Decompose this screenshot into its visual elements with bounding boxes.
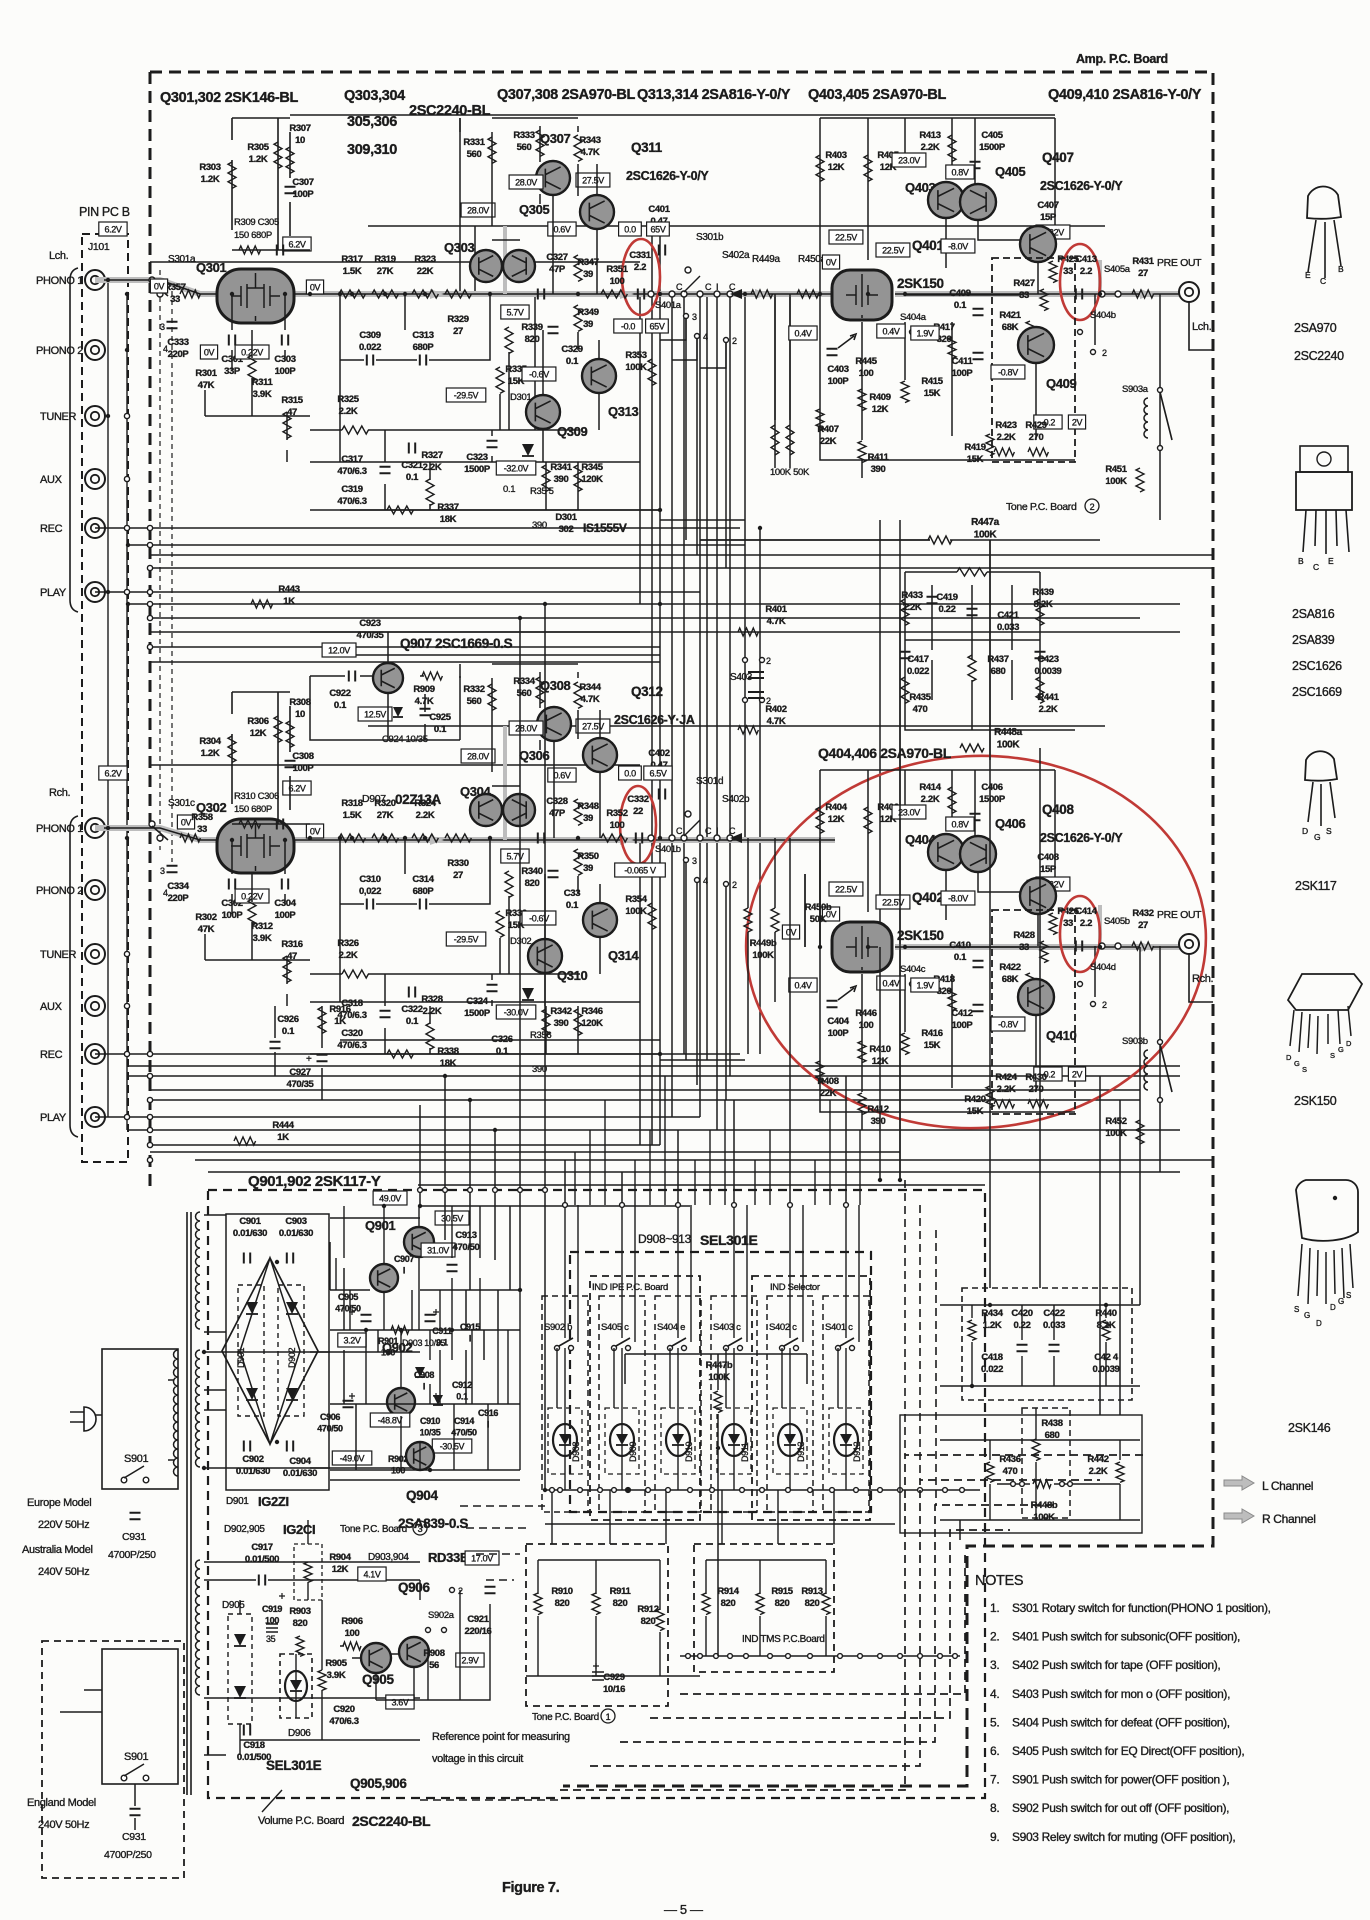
voltage 23.0V [892,805,926,819]
svg-text:R330: R330 [447,858,468,869]
svg-text:R345: R345 [581,462,603,473]
svg-text:1.2K: 1.2K [983,1320,1002,1331]
svg-text:2.2K: 2.2K [997,1084,1016,1095]
black arrow into S402a [730,289,742,299]
svg-text:56: 56 [429,1660,439,1671]
svg-text:S403 Push switch for mon o: S403 Push switch for mon o (OFF position… [1012,1687,1230,1701]
svg-text:R911: R911 [610,1586,632,1597]
svg-text:28.0V: 28.0V [515,178,537,188]
svg-text:Q410: Q410 [1046,1028,1077,1043]
transistor Q310 [528,939,562,973]
jack PHONO 2 rch [85,880,105,900]
svg-text:820: 820 [525,878,540,889]
svg-text:R424: R424 [995,1072,1017,1083]
svg-text:Q405: Q405 [995,164,1026,179]
svg-text:100K: 100K [1105,476,1127,487]
voltage 6.2V rail left Rch [99,766,127,780]
svg-text:2: 2 [732,336,737,346]
svg-text:R910: R910 [551,1586,572,1597]
svg-text:0V: 0V [204,348,215,358]
svg-text:R414: R414 [919,782,941,793]
svg-text:Q403,405 2SA970-BL: Q403,405 2SA970-BL [808,87,946,103]
svg-text:100: 100 [345,1628,360,1639]
svg-text:C307: C307 [292,177,313,188]
svg-text:C309: C309 [359,330,380,341]
transistor Q906 circle [399,1637,429,1667]
voltage 12.0V [322,643,356,657]
svg-text:2.2K: 2.2K [921,142,940,153]
svg-text:0.6V: 0.6V [553,771,570,781]
svg-text:R449b: R449b [750,938,777,949]
svg-text:R332: R332 [463,684,484,695]
svg-text:0.022: 0.022 [359,342,381,353]
svg-text:Q310: Q310 [557,968,588,983]
svg-text:560: 560 [467,696,482,707]
dashed link net upper [905,1180,936,1505]
indicator cell S402 c [767,1296,813,1512]
svg-text:Reference point for measuring: Reference point for measuring [432,1731,570,1743]
svg-text:12K: 12K [332,1564,349,1575]
svg-text:R409: R409 [869,392,890,403]
svg-text:C908: C908 [414,1370,434,1380]
wire R438 [997,1408,1120,1518]
LED D912 dashed box [829,1408,863,1474]
red circle C414 [1060,896,1100,972]
svg-text:680P: 680P [413,886,435,897]
svg-text:0.4V: 0.4V [882,979,899,989]
Europe power switch box [102,1349,178,1489]
svg-text:R434: R434 [981,1308,1003,1319]
svg-text:C322: C322 [401,1004,422,1015]
svg-text:S902a: S902a [428,1610,455,1621]
diode bridge arm 4 [286,1388,298,1400]
svg-text:R306: R306 [247,716,268,727]
svg-text:39: 39 [583,319,593,330]
svg-text:C317: C317 [341,454,362,465]
svg-text:2SC1669: 2SC1669 [1292,685,1342,699]
svg-text:-32.0V: -32.0V [504,464,529,474]
svg-text:3.2V: 3.2V [343,1336,360,1346]
svg-text:S404c: S404c [900,964,926,975]
svg-text:470: 470 [1003,1466,1018,1477]
svg-text:39: 39 [583,269,593,280]
signal path Lch center wire [104,280,1180,294]
svg-text:C314: C314 [412,874,434,885]
svg-text:D903,904: D903,904 [368,1552,409,1563]
pin 2 label Rch [724,882,729,887]
voltage 1.9V [911,326,939,340]
svg-text:28.0V: 28.0V [467,206,489,216]
wire england cap [60,1690,135,1830]
svg-text:12.0V: 12.0V [328,646,350,656]
svg-text:C404: C404 [827,1016,849,1027]
svg-text:2.2K: 2.2K [416,810,435,821]
svg-text:0.1: 0.1 [434,724,447,735]
wire cell S405 c [614,1205,635,1490]
svg-text:2.: 2. [990,1630,999,1644]
svg-text:2SC2240-BL: 2SC2240-BL [352,1813,431,1829]
svg-text:D909: D909 [628,1442,638,1462]
svg-text:-30.0V: -30.0V [504,1008,529,1018]
LED D913 [778,1424,802,1456]
svg-text:C414: C414 [1075,906,1097,917]
svg-text:0.033: 0.033 [997,622,1019,633]
svg-text:C328: C328 [546,796,567,807]
svg-text:22.5V: 22.5V [835,885,857,895]
voltage 1.9V [911,978,939,992]
svg-text:S301d: S301d [696,776,723,787]
wire bottom interconnects [420,540,1140,1540]
svg-text:S402 Push switch for tape: S402 Push switch for tape (OFF position)… [1012,1658,1220,1672]
svg-text:Amp. P.C. Board: Amp. P.C. Board [1076,52,1168,66]
voltage 28.0V a Rch [509,721,543,735]
svg-text:120K: 120K [581,474,603,485]
FET Q901 [370,1264,398,1292]
svg-text:0.8V: 0.8V [951,820,968,830]
wire power reg extra [310,1206,520,1470]
svg-text:R432: R432 [1132,908,1153,919]
bridge rectifier box [226,1214,329,1490]
jack PHONO 1 rch [85,818,105,838]
package SIP 2SK150 [1288,974,1362,1010]
voltage 0.6V [548,222,576,236]
svg-text:470/6.3: 470/6.3 [337,1010,366,1021]
svg-text:4: 4 [703,876,708,886]
svg-text:R419: R419 [964,442,985,453]
svg-text:820: 820 [805,1598,820,1609]
svg-text:S405 c: S405 c [601,1322,629,1333]
svg-text:C914: C914 [454,1416,474,1426]
svg-text:C331: C331 [629,250,651,261]
voltage 0.4V a [789,326,817,340]
svg-text:22.5V: 22.5V [835,233,857,243]
svg-text:100: 100 [610,276,625,287]
voltage 22.5V b [876,243,910,257]
svg-text:220/16: 220/16 [465,1626,492,1637]
svg-text:IND Selector: IND Selector [770,1282,820,1293]
svg-text:560: 560 [517,142,532,153]
svg-text:C: C [1320,276,1326,286]
wire Q309 Q313 block [310,330,660,510]
svg-text:4: 4 [163,888,168,898]
LED D906 [285,1671,307,1701]
svg-text:C421: C421 [997,610,1019,621]
svg-text:England Model: England Model [27,1797,96,1809]
svg-text:27: 27 [453,870,463,881]
svg-text:R909: R909 [413,684,434,695]
polarity plus marks [349,1309,355,1315]
dashed box Q410 [992,910,1075,1114]
svg-text:3.: 3. [990,1658,999,1672]
svg-text:C931: C931 [122,1531,146,1543]
svg-text:2SK150: 2SK150 [1294,1094,1337,1108]
svg-text:D908~913: D908~913 [638,1232,692,1246]
voltage 0.22V Rch [235,889,269,903]
svg-text:12K: 12K [828,162,845,173]
svg-text:G: G [1314,832,1320,842]
Amp P.C. Board left dashed border [149,72,152,1188]
black arrow into S402b [730,833,742,843]
svg-text:-48.8V: -48.8V [378,1416,403,1426]
R434 network dashed box [962,1288,1132,1400]
tone network top resistor [957,568,987,576]
svg-text:R905: R905 [325,1658,347,1669]
svg-text:C332: C332 [627,794,648,805]
svg-text:S404d: S404d [1090,962,1116,973]
svg-text:22.5V: 22.5V [882,246,904,256]
red circle C332 [620,786,656,864]
signal arrow [225,835,239,845]
svg-text:10/16: 10/16 [603,1684,625,1695]
svg-text:2SA970: 2SA970 [1294,321,1337,335]
volume board dashed outline [208,1190,985,1798]
svg-text:390: 390 [871,464,886,475]
svg-text:R340: R340 [521,866,542,877]
svg-text:R341: R341 [550,462,572,473]
svg-text:470/50: 470/50 [335,1304,361,1314]
diode D301 symbol [522,444,534,456]
wire bus Lch band [95,115,1213,662]
LED D911 dashed box [717,1408,751,1474]
svg-text:27: 27 [453,326,463,337]
voltage 22.5V a [829,230,863,244]
svg-text:C321: C321 [401,460,423,471]
svg-text:100: 100 [859,368,874,379]
svg-text:2.2K: 2.2K [1039,704,1058,715]
pins R448b bus [1011,1482,1016,1487]
svg-text:120K: 120K [581,1018,603,1029]
LED D912 [834,1424,858,1456]
svg-text:4.7K: 4.7K [581,694,600,705]
svg-text:100K: 100K [625,906,647,917]
svg-text:R325: R325 [337,394,359,405]
svg-text:0.01/630: 0.01/630 [236,1466,270,1477]
voltage 5.7V Rch [501,849,529,863]
voltage -0.8V [991,1017,1025,1031]
svg-text:390: 390 [554,474,569,485]
voltage 0.22V [1036,877,1070,891]
svg-text:2.2: 2.2 [1080,918,1092,929]
svg-text:33: 33 [170,294,180,305]
R434 network outer box [900,1415,1142,1533]
voltage -30.0V box [496,1005,536,1019]
svg-text:15K: 15K [967,1106,984,1117]
dashed box Q409 [992,258,1075,462]
voltage 6.2V right Rch [283,781,311,795]
svg-text:C423: C423 [1037,654,1058,665]
svg-text:820: 820 [641,1616,656,1627]
diode bridge arm 3 [246,1388,258,1400]
Amp P.C. Board dashed border [150,72,1213,1786]
svg-text:C: C [729,826,736,836]
transistor Q304b [503,794,535,826]
svg-text:C907: C907 [394,1254,414,1264]
svg-text:R451: R451 [1105,464,1127,475]
wire tone network frame [905,572,1075,730]
svg-text:Q311: Q311 [631,140,663,155]
svg-text:R428: R428 [1013,930,1034,941]
svg-text:C: C [705,282,712,292]
svg-text:1500P: 1500P [979,794,1006,805]
svg-text:R326: R326 [337,938,358,949]
svg-text:100P: 100P [952,1020,974,1031]
svg-text:1.5K: 1.5K [343,266,362,277]
svg-text:R408: R408 [817,1076,838,1087]
voltage 2.9V [456,1653,484,1667]
svg-text:R435: R435 [909,692,931,703]
svg-text:68K: 68K [1002,322,1019,333]
svg-text:R331: R331 [463,137,485,148]
svg-text:Europe Model: Europe Model [27,1497,91,1509]
svg-text:100P: 100P [275,910,297,921]
svg-text:C911: C911 [432,1326,452,1336]
svg-text:6.: 6. [990,1744,999,1758]
svg-text:10: 10 [295,709,305,720]
wire PRE OUT drop [1189,302,1213,350]
svg-text:-0.065 V: -0.065 V [624,866,656,876]
svg-text:Figure 7.: Figure 7. [502,1880,560,1896]
svg-text:R339: R339 [521,322,542,333]
svg-text:D301: D301 [510,392,531,403]
svg-text:S901: S901 [124,1751,149,1763]
svg-text:IG2CI: IG2CI [283,1522,315,1537]
pins o3 o4 Rch [684,858,689,863]
svg-text:R404: R404 [825,802,847,813]
voltage -0.2 2V [1034,415,1062,429]
svg-text:240V 50Hz: 240V 50Hz [38,1819,89,1831]
svg-text:R356: R356 [530,1030,551,1041]
svg-text:D901: D901 [226,1496,249,1507]
voltage -8.0V [941,239,975,253]
svg-text:C912: C912 [452,1380,472,1390]
svg-text:C417: C417 [907,654,928,665]
bracket Lch inputs [70,268,78,612]
svg-text:220P: 220P [168,349,190,360]
svg-text:D902: D902 [287,1348,297,1368]
transistor Q408 circle [1020,878,1056,914]
svg-text:R449a: R449a [752,254,781,265]
pin 2 label [724,338,729,343]
svg-text:390: 390 [871,1116,886,1127]
svg-text:R448a: R448a [994,727,1023,738]
svg-text:Q314: Q314 [608,948,640,963]
svg-text:2V: 2V [1072,1070,1083,1080]
svg-text:C407: C407 [1037,200,1058,211]
svg-text:R327: R327 [421,450,442,461]
svg-text:23.0V: 23.0V [898,808,920,818]
transistor Q314 [583,903,617,937]
svg-text:10/35: 10/35 [420,1428,441,1438]
svg-text:R412: R412 [867,1104,888,1115]
svg-text:0V: 0V [154,282,165,292]
svg-text:0.1: 0.1 [334,700,347,711]
svg-text:R914: R914 [717,1586,739,1597]
svg-text:C913: C913 [455,1230,476,1241]
svg-text:3.9K: 3.9K [253,389,272,400]
svg-text:C411: C411 [952,356,974,367]
wire cell S401 c [838,1205,859,1490]
svg-text:S405b: S405b [1104,916,1130,927]
svg-text:C333: C333 [167,337,188,348]
voltage 0V Q301 out [306,280,323,294]
svg-text:0.022: 0.022 [981,1364,1003,1375]
capacitor C931 england [130,1809,141,1815]
svg-text:R Channel: R Channel [1262,1512,1316,1526]
svg-text:G: G [1304,1311,1310,1320]
svg-text:AUX: AUX [40,474,63,486]
wire C309 C313 loop [340,294,490,462]
svg-text:R305: R305 [247,142,269,153]
svg-text:PHONO 2: PHONO 2 [36,345,83,357]
signal arrow [620,835,634,845]
svg-text:1K: 1K [277,1132,289,1143]
diode D905a [234,1634,246,1646]
voltage 30.5V [435,1211,469,1225]
svg-text:R403: R403 [825,150,846,161]
svg-text:R443: R443 [278,584,299,595]
svg-text:C319: C319 [341,484,362,495]
svg-text:309,310: 309,310 [347,142,397,158]
svg-text:R444: R444 [272,1120,294,1131]
signal arrow [430,835,444,845]
dual FET Q401 2SK150 [832,270,892,320]
zener D904 [433,1395,443,1405]
LED D913 dashed box [773,1408,807,1474]
pins o3 o4 [684,314,689,319]
svg-text:R337: R337 [437,502,458,513]
svg-text:PHONO 1: PHONO 1 [36,823,83,835]
svg-text:2SA816: 2SA816 [1292,607,1335,621]
wire Q401 cluster frame [820,118,1160,520]
svg-text:-49.0V: -49.0V [340,1454,365,1464]
svg-text:B: B [1298,556,1304,566]
svg-text:5.: 5. [990,1715,999,1729]
red circle C331 [622,239,660,315]
svg-text:R450b: R450b [805,902,832,913]
svg-text:22K: 22K [820,1088,837,1099]
svg-text:2.2K: 2.2K [339,950,358,961]
svg-text:2.2: 2.2 [1080,266,1092,277]
svg-text:680P: 680P [413,342,435,353]
R438 dashed box [1022,1408,1070,1518]
wire SEL feeder verticals [575,1076,860,1205]
voltage 0.6V Rch [548,768,576,782]
svg-text:2: 2 [1102,348,1107,358]
svg-text:C412: C412 [951,1008,972,1019]
svg-text:G: G [1294,1059,1300,1068]
svg-text:S: S [1346,1291,1351,1300]
transistor Q309 [526,395,560,429]
voltage -8.0V [941,891,975,905]
svg-text:Q401: Q401 [912,238,944,253]
svg-text:C410: C410 [949,940,970,951]
voltage 0V at Q301 gate [150,279,167,293]
svg-text:C931: C931 [122,1831,146,1843]
svg-text:33: 33 [1063,266,1073,277]
svg-text:0.1: 0.1 [566,356,579,367]
wire regulator dense mesh [204,1218,520,1480]
svg-text:Q409,410 2SA816-Y-0/Y: Q409,410 2SA816-Y-0/Y [1048,87,1202,103]
svg-text:470/50: 470/50 [317,1424,343,1434]
svg-text:0.1: 0.1 [282,1026,295,1037]
svg-text:100K: 100K [1105,1128,1127,1139]
svg-text:IND IPE P.C. Board: IND IPE P.C. Board [592,1282,668,1293]
svg-text:1.2K: 1.2K [201,174,220,185]
svg-text:100P: 100P [293,763,315,774]
wire S301 link dashed [160,270,172,862]
svg-text:2SA839: 2SA839 [1292,633,1335,647]
svg-text:S903b: S903b [1122,1036,1148,1047]
